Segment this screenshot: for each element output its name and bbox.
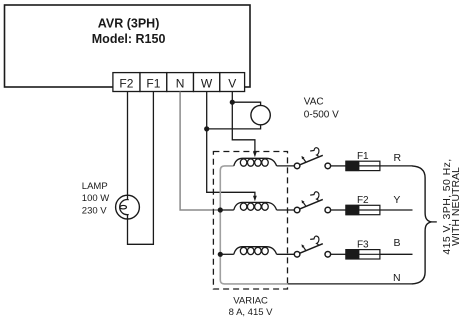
voltmeter M1 [251,105,270,124]
svg-text:R: R [394,152,402,164]
terminal W [194,73,220,92]
svg-text:8 A, 415 V: 8 A, 415 V [229,307,274,318]
wire N terminal to variac common bus (gray) [180,92,219,211]
svg-text:F1: F1 [357,151,369,162]
label LAMP 100 W 230 V [82,181,109,216]
wire switch 3 to fuse F3 [330,253,346,255]
wiper arrowhead coil 2 [253,196,257,202]
svg-text:F1: F1 [146,77,160,91]
svg-text:N: N [393,272,401,284]
svg-text:VAC: VAC [304,97,324,108]
wire switch 1 to fuse F1 [330,165,346,167]
svg-text:F2: F2 [357,195,369,206]
terminal F1 [140,73,167,92]
switch S3 [294,236,330,257]
lamp LP1 [116,195,140,219]
wire fuse F1 to R [380,165,412,167]
label VARIAC 8 A, 415 V [229,296,274,318]
wire coil 2 to switch 2 [277,209,295,211]
node W junction [204,126,209,131]
wire switch 2 to fuse F2 [330,209,346,211]
svg-text:N: N [176,77,185,91]
wire W terminal down to coil 2 wiper feed [207,92,255,197]
switch S1 [294,148,330,169]
fuse F2 [346,195,380,215]
wire fuse F2 to Y [380,209,413,211]
svg-text:B: B [393,237,400,249]
svg-text:AVR (3PH): AVR (3PH) [98,16,160,30]
svg-text:F2: F2 [119,77,133,91]
svg-text:VARIAC: VARIAC [233,296,268,307]
terminal F2 [113,73,140,92]
brace tick [431,221,437,223]
label VAC 0-500 V [304,97,339,121]
wire neutral output [288,283,413,285]
terminal V [220,73,245,92]
variac coil L1 [234,158,277,166]
wire V terminal down to coil 1 wiper feed [232,92,255,153]
variac coil L2 [234,202,277,210]
wire fuse F3 to B [380,253,413,255]
fuse F1 [346,151,380,171]
switch S2 [294,192,330,213]
node V junction [230,100,235,105]
wire W junction to voltmeter bottom [207,125,261,129]
wire coil 2 left stub [220,209,234,211]
svg-text:0-500 V: 0-500 V [304,109,339,120]
AVR unit box U1 [5,5,251,87]
svg-text:230 V: 230 V [82,205,107,216]
svg-text:Y: Y [393,194,400,206]
variac enclosure (dashed) [213,152,287,290]
variac coil L3 [234,247,277,255]
svg-text:V: V [228,77,236,91]
svg-text:100 W: 100 W [82,193,109,204]
svg-text:WITH NEUTRAL: WITH NEUTRAL [450,167,462,246]
wire coil 3 to switch 3 [277,253,295,255]
wire coil 3 left stub [220,253,234,255]
svg-text:F3: F3 [357,239,369,250]
svg-text:W: W [201,77,213,91]
wire lamp bottom to F1 terminal [128,92,154,245]
node bus-coil2 junction [218,207,223,212]
wire coil 1 to switch 1 [277,165,295,167]
terminal N [167,73,194,92]
wiper arrowhead coil 1 [253,152,257,158]
brace output group [412,166,431,284]
variac common bus (gray) [220,166,287,284]
svg-text:LAMP: LAMP [82,181,108,192]
svg-text:Model: R150: Model: R150 [92,32,166,46]
wire F2 terminal to lamp top [127,92,129,200]
wire V junction to voltmeter top [232,102,260,105]
node bus-coil3 junction [218,252,223,257]
fuse F3 [346,239,380,259]
